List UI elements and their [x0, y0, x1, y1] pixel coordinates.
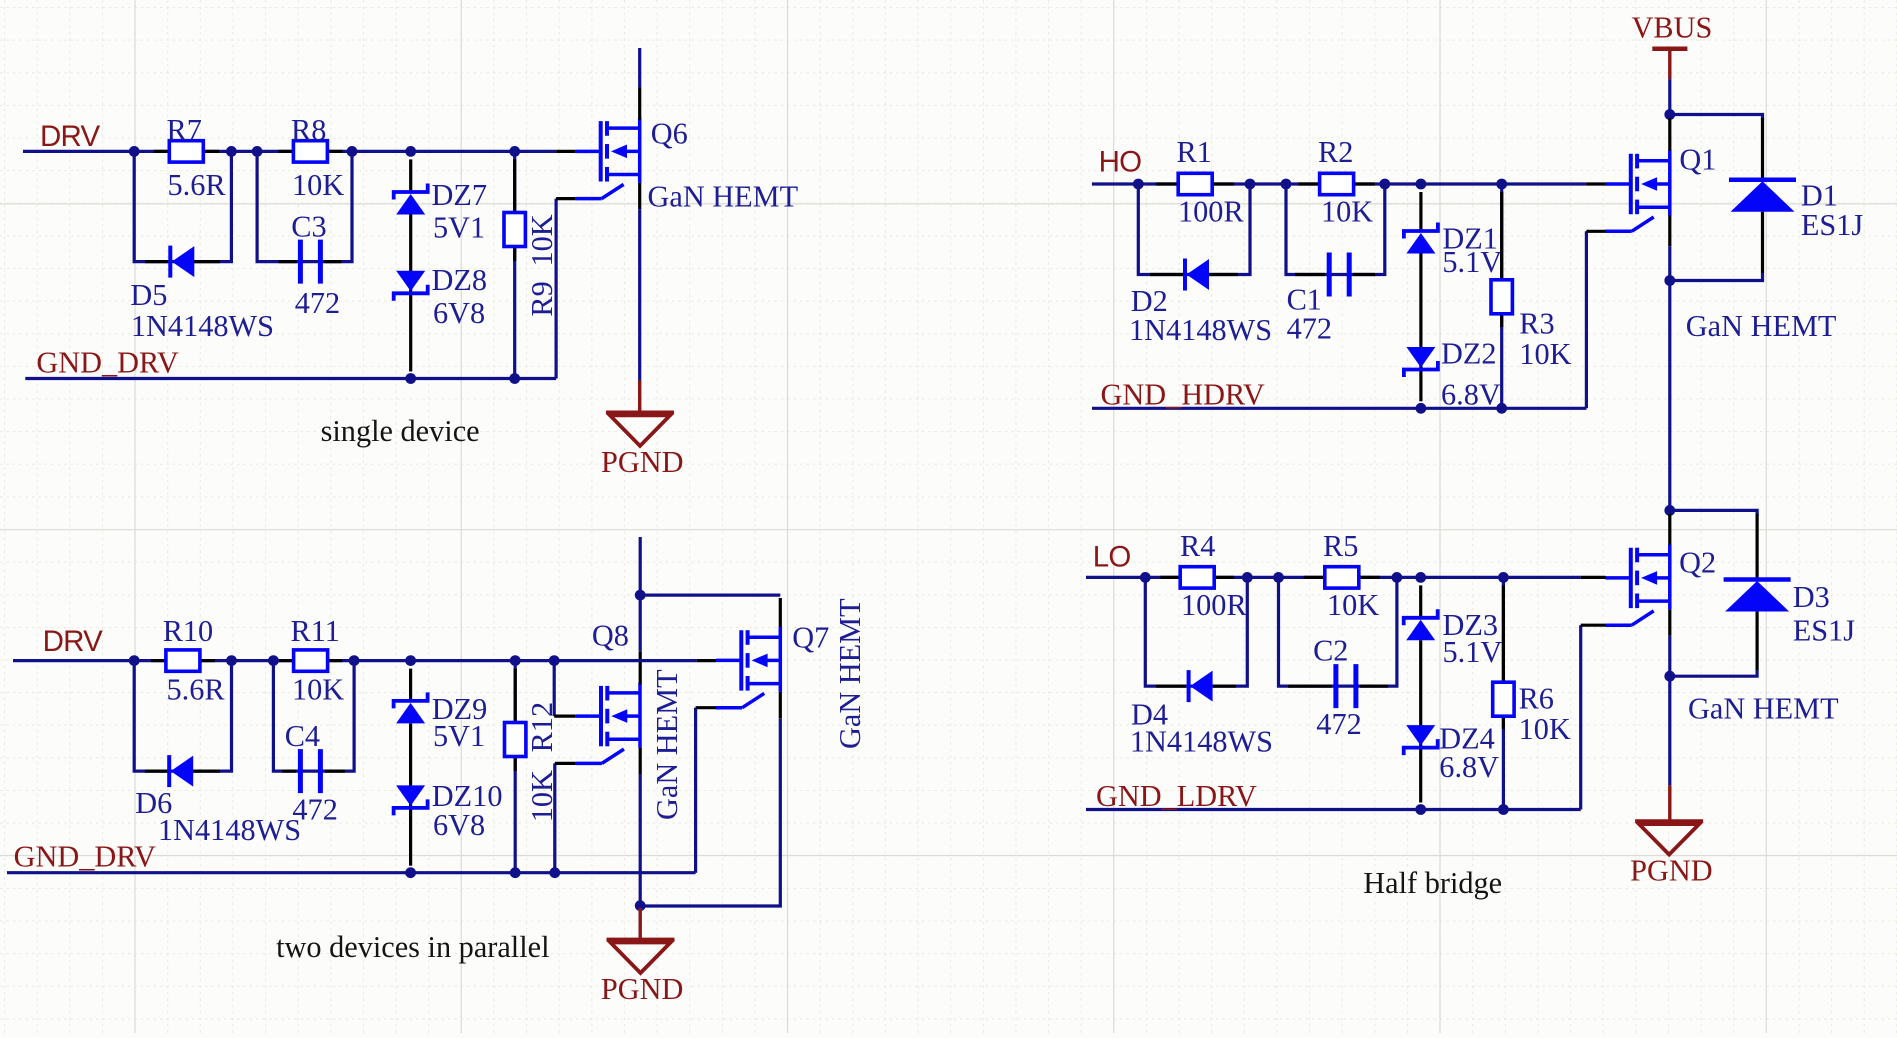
resistor R10 — [166, 650, 200, 671]
wire gate stub Q1 (black) — [1586, 182, 1605, 185]
wire VBUS to Q1 drain — [1668, 79, 1671, 114]
wire C4 loop — [273, 661, 354, 772]
transistor Q7 — [716, 627, 780, 708]
wire PGND stem (bottom-left) — [639, 908, 642, 940]
wire D4 loop — [1145, 577, 1247, 686]
zener diode DZ9 — [394, 692, 428, 708]
pin wires of R12 (black) — [514, 669, 517, 723]
svg-text:GND_DRV: GND_DRV — [14, 840, 156, 874]
wire source-sense stub Q1 (black) — [1586, 230, 1605, 233]
svg-text:GaN HEMT: GaN HEMT — [1688, 692, 1839, 726]
resistor R12 — [505, 723, 526, 757]
svg-text:5.6R: 5.6R — [167, 673, 226, 707]
node junction DZ7 top — [405, 146, 416, 157]
wire Q7 drain (black) — [779, 598, 782, 627]
svg-text:R4: R4 — [1180, 529, 1215, 563]
wire Q8 source-sense riser — [553, 763, 556, 872]
svg-text:10K: 10K — [292, 168, 344, 202]
svg-text:Q8: Q8 — [592, 619, 629, 653]
wire D2 loop — [1138, 184, 1250, 275]
svg-text:10K: 10K — [1519, 712, 1571, 746]
wire R12 column — [514, 661, 517, 873]
node junction Q2 source / D3 bottom — [1664, 671, 1675, 682]
pin wires of R8 (black) — [279, 150, 294, 153]
wire R3 column — [1500, 184, 1503, 408]
diode D5 — [168, 246, 172, 278]
svg-text:VBUS: VBUS — [1632, 10, 1713, 44]
node junction R6 top — [1498, 572, 1509, 583]
capacitor C1 — [1327, 253, 1332, 297]
svg-text:472: 472 — [1316, 707, 1361, 741]
wire Q7 source-sense riser — [694, 708, 697, 873]
node junction R3 bottom — [1496, 403, 1507, 414]
node junction R6 bottom — [1498, 804, 1509, 815]
wire DRV to Q7 gate — [554, 659, 697, 662]
wire Q8 drain (black) — [639, 652, 642, 685]
wire D6 loop — [134, 661, 231, 772]
wire source-sense stub Q2 (black) — [1581, 624, 1606, 627]
svg-text:R2: R2 — [1318, 135, 1353, 169]
svg-text:472: 472 — [1287, 311, 1332, 345]
svg-text:C4: C4 — [285, 719, 320, 753]
wire R6 column — [1502, 577, 1505, 809]
wire D3 anode (black) — [1755, 612, 1758, 670]
node junction R9 top — [509, 146, 520, 157]
pin wires of D5 (black) — [145, 260, 168, 263]
svg-text:10K: 10K — [525, 214, 559, 266]
svg-text:R11: R11 — [291, 614, 340, 648]
node junction C4 left — [268, 655, 279, 666]
pin wires of R3 (black) — [1500, 192, 1503, 281]
node junction DZ8 bottom — [405, 373, 416, 384]
wire Q2 source down (black) — [1668, 610, 1671, 636]
resistor R1 — [1178, 173, 1212, 194]
wire GND_HDRV rail — [1092, 407, 1586, 410]
svg-text:C2: C2 — [1313, 634, 1348, 668]
svg-text:DRV: DRV — [40, 120, 100, 153]
wire drain pin Q6 (black) — [638, 87, 641, 120]
svg-text:PGND: PGND — [1630, 854, 1713, 888]
wire source-sense riser Q1 — [1585, 231, 1588, 408]
node junction R3 top — [1496, 179, 1507, 190]
pin wires of R10 (black) — [151, 659, 166, 662]
svg-text:5.6R: 5.6R — [168, 168, 227, 202]
wire D1 bottom link — [1670, 273, 1763, 281]
wire C3 loop — [257, 151, 352, 261]
wire drain stub above Q8 — [639, 537, 642, 595]
svg-text:Q7: Q7 — [792, 621, 829, 655]
wire Q8 gate stub (black) — [554, 714, 576, 717]
node junction Q1 drain / D1 top — [1664, 109, 1675, 120]
svg-text:two devices in parallel: two devices in parallel — [276, 930, 549, 964]
svg-text:1N4148WS: 1N4148WS — [1129, 313, 1272, 347]
wire C1 loop — [1286, 184, 1385, 275]
ground PGND (bottom-right) — [1635, 819, 1703, 823]
wire D1 cathode (black) — [1761, 118, 1764, 180]
wire DRV horizontal (top-left) — [23, 150, 556, 153]
svg-text:10K: 10K — [1327, 588, 1379, 622]
svg-text:R10: R10 — [163, 614, 214, 648]
node junction DZ4 bottom — [1415, 804, 1426, 815]
capacitor C2 — [1333, 664, 1338, 708]
svg-text:R9: R9 — [525, 281, 559, 316]
diode D4 — [1187, 670, 1191, 702]
pin wires of R6 (black) — [1502, 585, 1505, 683]
zener diode DZ4 — [1404, 739, 1438, 755]
svg-text:1N4148WS: 1N4148WS — [158, 813, 301, 847]
zener diode DZ1 — [1404, 223, 1438, 239]
svg-text:5.1V: 5.1V — [1442, 245, 1502, 279]
wire Q8 gate branch vertical — [553, 661, 556, 717]
svg-text:GaN HEMT: GaN HEMT — [648, 180, 799, 214]
svg-text:R8: R8 — [291, 113, 326, 147]
svg-text:1N4148WS: 1N4148WS — [131, 309, 274, 343]
svg-text:10K: 10K — [1519, 337, 1571, 371]
resistor R2 — [1320, 173, 1354, 194]
pin wires of C3 (black) — [279, 260, 297, 263]
wire Q1 source down (navy) — [1668, 246, 1671, 280]
svg-text:6V8: 6V8 — [433, 808, 485, 842]
wire switch node vertical — [1668, 281, 1671, 511]
resistor R7 — [169, 141, 203, 162]
node junction C1 right — [1379, 179, 1390, 190]
svg-text:single device: single device — [321, 414, 480, 448]
resistor R6 — [1493, 682, 1514, 716]
node junction R1-D2 right — [1245, 179, 1256, 190]
transistor Q2 — [1606, 544, 1670, 625]
wire PGND stem (bottom-right) — [1668, 785, 1671, 821]
node junction DZ3 top — [1415, 572, 1426, 583]
svg-text:D3: D3 — [1793, 580, 1830, 614]
pin wires of R4 (black) — [1160, 576, 1182, 579]
wire GND_DRV rail (top-left) — [25, 377, 556, 380]
wire Q2 source down (navy) — [1668, 636, 1671, 677]
zener diode DZ3 — [1404, 609, 1438, 625]
wire DZ1-DZ2 column (black) — [1419, 192, 1422, 231]
resistor R4 — [1180, 567, 1214, 588]
capacitor C3 — [298, 240, 303, 284]
diode D3 (ES1J) — [1724, 577, 1791, 582]
pin wires of R9 (black) — [513, 159, 516, 212]
svg-text:GaN HEMT: GaN HEMT — [1686, 309, 1837, 343]
node junction C3 right — [347, 146, 358, 157]
node junction DZ1 top — [1416, 179, 1427, 190]
svg-text:PGND: PGND — [601, 445, 684, 479]
pin wires of R2 (black) — [1299, 182, 1321, 185]
wire source-sense riser Q2 — [1579, 625, 1582, 809]
svg-text:R3: R3 — [1519, 306, 1554, 340]
svg-text:5.1V: 5.1V — [1443, 635, 1503, 669]
wire source Q6 down (black) — [638, 183, 641, 209]
ground PGND (bottom-left) — [607, 938, 675, 942]
zener diode DZ2 — [1404, 361, 1438, 377]
wire Q8 drain upper — [639, 595, 642, 652]
svg-text:6.8V: 6.8V — [1439, 750, 1499, 784]
svg-text:GaN HEMT: GaN HEMT — [833, 598, 867, 749]
wire Q8 source-sense stub (black) — [555, 762, 576, 765]
wire Q7 source down (black) — [779, 692, 782, 718]
svg-text:R1: R1 — [1177, 135, 1212, 169]
resistor R3 — [1491, 280, 1512, 314]
zener diode DZ8 — [394, 285, 428, 301]
wire D3 cathode (black) — [1755, 514, 1758, 580]
wire D5 loop — [134, 151, 231, 261]
svg-text:472: 472 — [295, 286, 340, 320]
wire D1 anode (black) — [1761, 212, 1764, 273]
node junction C2 left — [1273, 572, 1284, 583]
wire Q1 drain (black) — [1668, 118, 1671, 151]
pin wires of C4 (black) — [282, 769, 296, 772]
zener diode DZ7 — [394, 184, 428, 200]
svg-text:GaN HEMT: GaN HEMT — [650, 669, 684, 820]
wire C2 loop — [1279, 577, 1397, 686]
svg-text:D1: D1 — [1801, 178, 1838, 212]
node junction DRV-D6 left — [129, 655, 140, 666]
svg-text:DZ2: DZ2 — [1441, 337, 1497, 371]
node junction parallel source / PGND — [635, 900, 646, 911]
svg-text:GND_DRV: GND_DRV — [36, 346, 178, 380]
wire Q7 drain top link — [640, 593, 780, 596]
wire LO horizontal — [1086, 576, 1581, 579]
svg-text:DZ7: DZ7 — [432, 178, 488, 212]
node junction DRV-D5 left — [129, 146, 140, 157]
wire Q2 source to PGND — [1668, 676, 1671, 785]
svg-text:Q6: Q6 — [651, 117, 688, 151]
svg-text:5V1: 5V1 — [433, 719, 485, 753]
wire drain stub Q6 upper — [638, 48, 641, 87]
wire GND_DRV rail (bottom-left) — [7, 871, 696, 874]
svg-text:R7: R7 — [167, 113, 202, 147]
wire source Q6 down (navy) — [638, 209, 641, 380]
svg-text:6V8: 6V8 — [433, 296, 485, 330]
ground PGND (top-left) — [606, 410, 674, 414]
resistor R8 — [293, 141, 327, 162]
node junction DZ10 bottom — [405, 867, 416, 878]
wire Q7 gate stub (black) — [697, 659, 716, 662]
wire D3 top link — [1670, 510, 1757, 516]
wire source-sense stub Q6 (black) — [556, 197, 575, 200]
wire Q7 source-sense stub (black) — [696, 706, 716, 709]
wire PGND stem (top-left) — [638, 381, 641, 413]
pin wires of R5 (black) — [1304, 576, 1326, 579]
svg-text:100R: 100R — [1181, 588, 1247, 622]
transistor Q1 — [1606, 151, 1670, 232]
pin wires of R7 (black) — [154, 150, 169, 153]
wire DZ9-DZ10 column (black) — [409, 669, 412, 701]
node junction C4 right — [349, 655, 360, 666]
wire gate stub Q2 (black) — [1581, 576, 1606, 579]
node junction HO-D2 left — [1133, 179, 1144, 190]
svg-text:Q2: Q2 — [1679, 545, 1716, 579]
svg-text:10K: 10K — [1321, 195, 1373, 229]
svg-text:Q1: Q1 — [1679, 142, 1716, 176]
svg-text:HO: HO — [1099, 145, 1142, 178]
svg-text:GND_HDRV: GND_HDRV — [1101, 377, 1265, 411]
node junction R12 bottom — [510, 867, 521, 878]
svg-text:472: 472 — [292, 793, 337, 827]
pin wires of R11 (black) — [279, 659, 294, 662]
node junction R7-D5 right — [226, 146, 237, 157]
wire Q7 source down and across — [640, 718, 780, 906]
svg-text:R6: R6 — [1519, 682, 1554, 716]
zener diode DZ10 — [394, 799, 428, 815]
node junction R9 bottom — [509, 373, 520, 384]
pin wires of R1 (black) — [1156, 182, 1178, 185]
wire Q1 source down (black) — [1668, 216, 1671, 247]
node junction DZ2 bottom — [1416, 403, 1427, 414]
wire DZ7-DZ8 column (black) — [409, 159, 412, 192]
node junction C3 left — [252, 146, 263, 157]
svg-text:C3: C3 — [291, 210, 326, 244]
pin wires of D6 (black) — [145, 769, 167, 772]
svg-text:GND_LDRV: GND_LDRV — [1096, 779, 1257, 813]
resistor R11 — [294, 650, 328, 671]
node junction LO-D4 left — [1140, 572, 1151, 583]
svg-text:DZ8: DZ8 — [432, 263, 488, 297]
svg-text:ES1J: ES1J — [1801, 208, 1864, 242]
wire DZ3-DZ4 column (black) — [1419, 585, 1422, 617]
node junction R12 top — [510, 655, 521, 666]
svg-text:R5: R5 — [1323, 529, 1358, 563]
wire D1 top link — [1670, 115, 1763, 121]
pin wires of C1 (black) — [1295, 273, 1325, 276]
svg-text:Half bridge: Half bridge — [1363, 866, 1502, 900]
node junction C1 left — [1281, 179, 1292, 190]
diode D6 — [167, 755, 171, 787]
node junction Q8 source-sense bottom — [549, 867, 560, 878]
diode D2 — [1183, 259, 1187, 291]
transistor Q8 — [576, 683, 640, 764]
svg-text:6.8V: 6.8V — [1441, 377, 1501, 411]
svg-text:LO: LO — [1093, 541, 1131, 574]
wire gate stub Q6 (black) — [556, 150, 575, 153]
node junction Q1 source / switch node — [1664, 275, 1675, 286]
node junction switch node / Q2 drain / D3 top — [1664, 505, 1675, 516]
wire R9 column — [513, 151, 516, 378]
svg-text:1N4148WS: 1N4148WS — [1130, 725, 1273, 759]
svg-text:DRV: DRV — [43, 625, 103, 658]
resistor R9 — [504, 213, 525, 247]
wire source-sense riser Q6 — [554, 199, 557, 379]
diode D1 (ES1J) — [1729, 177, 1796, 182]
node junction R10-D6 right — [226, 655, 237, 666]
resistor R5 — [1325, 567, 1359, 588]
power port VBUS — [1652, 47, 1687, 52]
wire Q8 source down (black) — [639, 748, 642, 774]
node junction DZ9 top — [405, 655, 416, 666]
transistor Q6 — [575, 118, 639, 199]
node junction C2 right — [1392, 572, 1403, 583]
svg-text:PGND: PGND — [601, 972, 684, 1006]
svg-text:10K: 10K — [292, 673, 344, 707]
node junction Q8 gate branch — [549, 655, 560, 666]
wire DRV horizontal (bottom-left) — [13, 659, 554, 662]
pin wires of C2 (black) — [1288, 684, 1332, 687]
pin wires of D2 (black) — [1150, 273, 1183, 276]
svg-text:ES1J: ES1J — [1793, 614, 1856, 648]
wire GND_LDRV rail — [1086, 808, 1581, 811]
svg-text:100R: 100R — [1178, 195, 1244, 229]
wire Q8 source down (navy) — [639, 774, 642, 906]
wire D3 bottom link — [1670, 670, 1757, 676]
wire HO horizontal — [1092, 182, 1587, 185]
svg-text:D5: D5 — [130, 278, 167, 312]
node junction R4-D4 right — [1242, 572, 1253, 583]
node junction Q8 drain / Q7 drain — [635, 590, 646, 601]
wire Q2 drain (black) — [1668, 514, 1671, 545]
pin wires of D4 (black) — [1156, 684, 1186, 687]
capacitor C4 — [298, 749, 303, 793]
svg-text:5V1: 5V1 — [433, 211, 485, 245]
